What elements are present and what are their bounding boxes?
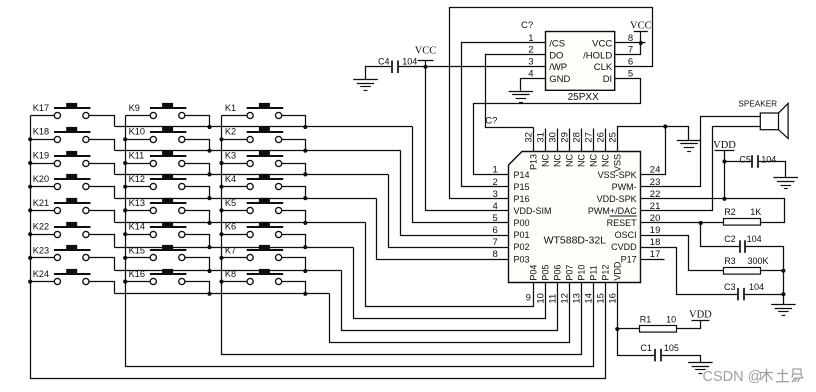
svg-text:K20: K20 [33, 174, 49, 184]
svg-text:C4: C4 [378, 56, 390, 66]
wire row net 3 to P02 [389, 175, 509, 248]
svg-text:VDD-SIM: VDD-SIM [514, 206, 552, 216]
junction bus col3 row5 [219, 208, 223, 212]
power VDD top [713, 140, 736, 151]
wire C1 right to ground [661, 356, 701, 363]
U1 pin number 27 [584, 132, 595, 143]
svg-text:R2: R2 [724, 207, 736, 217]
svg-text:104: 104 [402, 56, 417, 66]
svg-text:VDD: VDD [713, 140, 736, 151]
junction bus col1 row3 [28, 161, 32, 165]
svg-text:R3: R3 [724, 256, 736, 266]
capacitor C1 [655, 349, 661, 362]
wire row net 7 [115, 270, 342, 272]
label K18 [33, 127, 49, 137]
switch K15 [150, 245, 187, 261]
U1 pin number 4 [493, 201, 498, 212]
wire row net 7 to P06/P1x [342, 271, 558, 331]
U2 pin number 5 [628, 69, 633, 80]
wire K4 right terminal [282, 187, 306, 199]
wire U1 pin29 NC stub [569, 129, 571, 152]
svg-text:GND: GND [549, 74, 570, 85]
junction bus col3 row8 [219, 280, 223, 284]
wire K6 right terminal [282, 235, 306, 248]
svg-text:K12: K12 [129, 174, 145, 184]
wire row net 5 [115, 222, 366, 224]
wire U1 pin24 VSS-SPK [641, 127, 666, 175]
svg-text:P14: P14 [514, 170, 530, 180]
junction K8 net [303, 292, 307, 296]
U1 pin 4 label VDD-SIM [514, 206, 552, 216]
wire K17 right terminal [89, 116, 115, 127]
wire K15 left terminal [126, 257, 151, 259]
svg-text:WT588D-32L: WT588D-32L [544, 234, 607, 246]
svg-text:6: 6 [493, 225, 498, 236]
junction bus col2 row4 [123, 185, 127, 189]
wire U2 /WP VCC rail [399, 66, 546, 68]
wire U1 pin19 OSCI [641, 236, 724, 271]
switch K19 [54, 151, 91, 167]
U1 pin number 14 [584, 293, 595, 304]
svg-text:K18: K18 [33, 127, 49, 137]
U1 pin 32 label P13 [529, 154, 539, 170]
junction VCC VDD-SIM [423, 65, 427, 69]
U1 pin number 5 [493, 213, 498, 224]
wire column-2 left bus [126, 116, 594, 367]
wire speaker - from PWM+ [641, 127, 761, 211]
switch K8 [247, 269, 284, 285]
label K3 [225, 150, 236, 160]
svg-text:14: 14 [584, 293, 595, 304]
U1 pin 17 label P17 [621, 254, 637, 264]
wire K15 right terminal [185, 258, 210, 271]
label C4 [378, 56, 390, 66]
junction K2 net [303, 149, 307, 153]
svg-text:25: 25 [608, 132, 619, 143]
junction pin16 R1 C1 [615, 327, 619, 331]
svg-text:K16: K16 [129, 269, 145, 279]
label K1 [225, 103, 236, 113]
U1 pin 22 label VDD-SPK [597, 194, 637, 204]
U2 pin 7 label /HOLD [583, 50, 612, 61]
svg-text:C?: C? [485, 116, 497, 127]
watermark CSDN [703, 369, 803, 386]
U1 pin 25 label VSS [613, 154, 623, 172]
switch K21 [54, 198, 91, 214]
wire K18 left terminal [31, 139, 55, 141]
wire U1 pin16 VDD [617, 283, 619, 329]
svg-text:C1: C1 [640, 343, 652, 353]
wire K11 left terminal [126, 163, 151, 165]
label K22 [33, 222, 49, 232]
svg-text:RESET: RESET [607, 218, 638, 228]
wire U2 CLK to P16 [450, 8, 653, 199]
wire K4 left terminal [222, 186, 247, 188]
svg-text:18: 18 [650, 237, 661, 248]
svg-text:NC: NC [565, 154, 575, 167]
svg-text:NC: NC [553, 154, 563, 167]
svg-text:P03: P03 [514, 254, 530, 264]
svg-text:10: 10 [666, 314, 676, 324]
svg-text:C2: C2 [724, 234, 736, 244]
wire speaker + from PWM- [641, 117, 761, 187]
svg-text:PWM-: PWM- [612, 182, 637, 192]
U1 pin number 3 [493, 189, 498, 200]
ground C4 [353, 80, 378, 91]
svg-text:R1: R1 [640, 314, 652, 324]
wire K11 right terminal [185, 164, 210, 175]
wire U2 DO to P13 [486, 55, 546, 128]
wire K3 left terminal [222, 163, 247, 165]
svg-text:K3: K3 [225, 150, 236, 160]
U1 pin 15 label P12 [601, 265, 611, 281]
svg-text:P02: P02 [514, 242, 530, 252]
junction K10 net [207, 149, 211, 153]
switch K1 [247, 103, 284, 119]
label K10 [129, 127, 145, 137]
junction R3 rail [781, 269, 785, 273]
ground VSS [677, 141, 701, 152]
wire K23 right terminal [89, 258, 115, 271]
svg-text:31: 31 [536, 132, 547, 143]
svg-text:P00: P00 [514, 218, 530, 228]
junction bus col3 row3 [219, 161, 223, 165]
U1 pin 2 label P15 [514, 182, 530, 192]
switch K24 [54, 269, 91, 285]
wire C2 right to rail [746, 247, 784, 305]
svg-text:K5: K5 [225, 198, 236, 208]
switch K6 [247, 222, 284, 238]
wire K9 left terminal [126, 115, 151, 117]
U1 pin 27 label NC [589, 154, 599, 167]
svg-text:K7: K7 [225, 245, 236, 255]
label K14 [129, 222, 145, 232]
wire row net 1 [115, 126, 413, 128]
wire row net 5 to P04/P1x [366, 223, 534, 307]
junction K12 net [207, 196, 211, 200]
U1 pin number 32 [524, 132, 535, 143]
wire K16 right terminal [185, 282, 210, 294]
svg-text:P11: P11 [589, 265, 599, 280]
U1 pin number 25 [608, 132, 619, 143]
wire U1 pin20 RESET [641, 222, 701, 224]
wire K24 right terminal [89, 282, 115, 294]
U1 pin number 29 [560, 132, 571, 143]
U2 pin 6 label CLK [594, 62, 613, 73]
svg-text:300K: 300K [748, 256, 769, 266]
U1 pin 21 label PWM+/DAC [588, 206, 637, 216]
wire C5 left [725, 161, 752, 163]
svg-text:NC: NC [589, 154, 599, 167]
svg-text:VSS: VSS [613, 154, 623, 172]
U2 pin 4 label GND [549, 74, 570, 85]
switch K23 [54, 245, 91, 261]
U2 pin number 8 [628, 33, 633, 44]
wire K20 left terminal [31, 186, 55, 188]
svg-text:K10: K10 [129, 127, 145, 137]
label U2 part name 25PXX [568, 92, 599, 103]
U1 pin 6 label P01 [514, 230, 530, 240]
svg-text:P10: P10 [577, 265, 587, 281]
svg-text:/CS: /CS [549, 38, 565, 49]
label K9 [129, 103, 140, 113]
svg-text:K11: K11 [129, 150, 145, 160]
svg-text:K15: K15 [129, 245, 145, 255]
junction bus col1 row8 [28, 280, 32, 284]
svg-text:K1: K1 [225, 103, 236, 113]
svg-text:K23: K23 [33, 245, 49, 255]
U1 pin 10 label P05 [541, 265, 551, 281]
label R3 [724, 256, 736, 266]
svg-text:SPEAKER: SPEAKER [738, 100, 777, 109]
U1 pin 28 label NC [577, 154, 587, 167]
value R1 10 [666, 314, 676, 324]
power VCC left [415, 45, 437, 60]
junction bus col2 row8 [123, 280, 127, 284]
svg-text:C5: C5 [739, 155, 751, 165]
label R2 [724, 207, 736, 217]
wire K5 right terminal [282, 211, 306, 223]
wire C3 right [745, 294, 784, 296]
U1 pin 31 label NC [541, 154, 551, 167]
value R2 1K [750, 207, 761, 217]
junction bus col2 row5 [123, 208, 127, 212]
U1 pin number 16 [608, 293, 619, 304]
wire K2 right terminal [282, 140, 306, 151]
label C3 [724, 282, 736, 292]
switch K22 [54, 222, 91, 238]
switch K2 [247, 127, 284, 143]
label K21 [33, 198, 49, 208]
switch K10 [150, 127, 187, 143]
wire K13 left terminal [126, 210, 151, 212]
svg-text:104: 104 [749, 282, 764, 292]
label K23 [33, 245, 49, 255]
label K4 [225, 174, 236, 184]
svg-text:K2: K2 [225, 127, 236, 137]
wire K7 right terminal [282, 258, 306, 271]
wire K22 left terminal [31, 234, 55, 236]
U1 pin 18 label CVDD [611, 242, 637, 252]
svg-text:11: 11 [548, 294, 559, 304]
capacitor C2 [740, 240, 745, 253]
wire R1 left [618, 328, 640, 330]
junction VSS node [663, 124, 667, 128]
switch K9 [150, 103, 187, 119]
U1 pin number 7 [493, 237, 498, 248]
svg-text:VDD: VDD [613, 261, 623, 281]
switch K12 [150, 174, 187, 190]
U1 pin 11 label P06 [553, 265, 563, 281]
wire K24 left terminal [31, 281, 55, 283]
svg-text:DO: DO [549, 50, 563, 61]
U2 pin number 3 [528, 57, 533, 68]
wire U1 pin18 CVDD [641, 248, 739, 295]
svg-text:P05: P05 [541, 265, 551, 281]
label K15 [129, 245, 145, 255]
value C5 104 [761, 155, 776, 165]
svg-text:4: 4 [528, 69, 533, 80]
wire K22 right terminal [89, 235, 115, 248]
junction bus col1 row4 [28, 185, 32, 189]
designator U1 C? [485, 116, 497, 127]
svg-text:CVDD: CVDD [611, 242, 637, 252]
label C5 [739, 155, 751, 165]
svg-text:5: 5 [493, 213, 498, 224]
label K8 [225, 269, 236, 279]
svg-text:K4: K4 [225, 174, 236, 184]
svg-text:16: 16 [608, 293, 619, 304]
wire K14 right terminal [185, 235, 210, 248]
svg-text:P17: P17 [621, 254, 637, 264]
ground U2 [509, 92, 533, 103]
wire C4 to ground [366, 67, 393, 80]
resistor R3 [724, 268, 761, 275]
label K20 [33, 174, 49, 184]
svg-text:30: 30 [548, 132, 559, 143]
switch K3 [247, 151, 284, 167]
junction K3 net [303, 172, 307, 176]
U1 pin number 10 [536, 293, 547, 304]
U1 pin 29 label NC [565, 154, 575, 167]
junction K6 net [303, 245, 307, 249]
U1 pin number 28 [572, 132, 583, 143]
svg-text:32: 32 [524, 132, 535, 143]
svg-text:K22: K22 [33, 222, 49, 232]
U1 pin 24 label VSS-SPK [598, 170, 637, 180]
U1 pin number 24 [650, 165, 661, 176]
wire K19 right terminal [89, 164, 115, 175]
label K5 [225, 198, 236, 208]
wire K9 right terminal [185, 116, 210, 127]
label K11 [129, 150, 145, 160]
wire C2 left [701, 223, 740, 247]
switch K5 [247, 198, 284, 214]
U1 pin number 21 [650, 201, 661, 212]
U2 pin number 7 [628, 45, 633, 56]
wire U2 DI to P14 [474, 79, 641, 175]
svg-text:C?: C? [521, 20, 533, 31]
svg-text:19: 19 [650, 225, 661, 236]
svg-text:P13: P13 [529, 154, 539, 170]
svg-text:P04: P04 [529, 265, 539, 281]
wire K17 left terminal [31, 115, 55, 117]
power VDD bottom [689, 309, 712, 320]
junction bus col3 row4 [219, 185, 223, 189]
svg-text:7: 7 [493, 237, 498, 248]
U2 pin number 6 [628, 57, 633, 68]
U1 pin number 31 [536, 132, 547, 143]
wire U1 pin27 NC stub [593, 129, 595, 152]
ground C1 [688, 363, 713, 374]
svg-text:29: 29 [560, 132, 571, 143]
wire K6 left terminal [222, 234, 247, 236]
junction bus col1 row6 [28, 232, 32, 236]
U1 pin 13 label P10 [577, 265, 587, 281]
wire U1 pin25 VSS to ground [618, 127, 689, 152]
junction bus col2 row7 [123, 256, 127, 260]
svg-text:26: 26 [596, 132, 607, 143]
U1 pin number 26 [596, 132, 607, 143]
junction K14 net [207, 245, 211, 249]
switch K16 [150, 269, 187, 285]
U2 pin 2 label DO [549, 50, 563, 61]
switch K7 [247, 245, 284, 261]
junction VDD C5 [722, 159, 726, 163]
switch K11 [150, 151, 187, 167]
svg-text:P12: P12 [601, 265, 611, 281]
label K19 [33, 150, 49, 160]
U2 pin number 4 [528, 69, 533, 80]
wire row net 8 [115, 293, 330, 295]
wire K21 right terminal [89, 211, 115, 223]
svg-text:15: 15 [596, 293, 607, 304]
wire column-3 left bus [222, 116, 582, 355]
svg-text:P01: P01 [514, 230, 530, 240]
value R3 300K [748, 256, 769, 266]
U1 pin number 11 [548, 294, 559, 304]
junction bus col1 row2 [28, 137, 32, 141]
wire K12 right terminal [185, 187, 210, 199]
wire K5 left terminal [222, 210, 247, 212]
capacitor C5 [752, 155, 758, 168]
wire K10 left terminal [126, 139, 151, 141]
label R1 [640, 314, 652, 324]
wire row net 8 to P07/P1x [330, 283, 570, 343]
svg-text:CSDN @: CSDN @ [703, 369, 763, 385]
wire R3 right [761, 270, 784, 272]
wire row net 1 to P00 [413, 127, 509, 223]
U1 pin 30 label NC [553, 154, 563, 167]
speaker LS1 [738, 100, 788, 139]
wire K14 left terminal [126, 234, 151, 236]
wire VDD to R2 pullup [725, 199, 785, 223]
wire K16 left terminal [126, 281, 151, 283]
ground C5 [774, 178, 799, 189]
U1 pin number 13 [572, 293, 583, 304]
svg-text:13: 13 [572, 293, 583, 304]
wire row net 6 [115, 247, 354, 249]
U2 pin 5 label DI [603, 74, 613, 85]
wire row net 4 [115, 198, 377, 200]
U1 pin number 23 [650, 177, 661, 188]
svg-text:NC: NC [541, 154, 551, 167]
wire U1 pin30 NC stub [557, 129, 559, 152]
U1 pin number 6 [493, 225, 498, 236]
svg-text:/WP: /WP [549, 62, 567, 73]
wire U1 pin28 NC stub [581, 129, 583, 152]
svg-text:104: 104 [761, 155, 776, 165]
label K2 [225, 127, 236, 137]
wire K7 left terminal [222, 257, 247, 259]
wire row net 6 to P05/P1x [354, 248, 546, 319]
junction K9 net [207, 125, 211, 129]
junction bus col3 row6 [219, 232, 223, 236]
switch K20 [54, 174, 91, 190]
value C4 104 [402, 56, 417, 66]
wire U1 pin22 VDD-SPK [641, 198, 725, 200]
U2 pin number 1 [528, 33, 533, 44]
value C1 105 [664, 343, 679, 353]
wire C5 right to ground [758, 162, 786, 178]
wire K1 left terminal [222, 115, 247, 117]
svg-text:25PXX: 25PXX [568, 92, 599, 103]
U1 pin number 20 [650, 213, 661, 224]
svg-text:VCC: VCC [592, 38, 612, 49]
U1 pin number 1 [493, 165, 498, 176]
svg-text:8: 8 [493, 249, 498, 260]
junction K11 net [207, 172, 211, 176]
